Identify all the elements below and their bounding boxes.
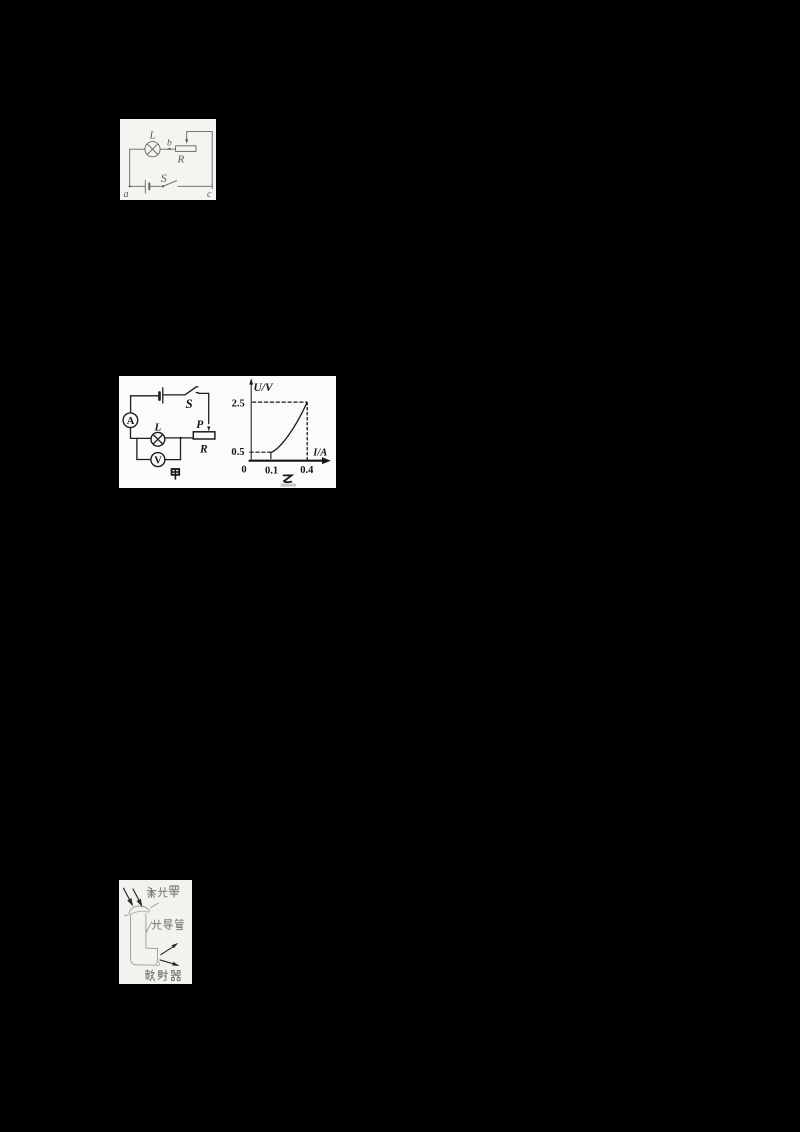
U axis (vertical): [250, 383, 252, 462]
wire: voltmeter to right riser: [165, 459, 181, 461]
wire: right vertical (slider lead): [208, 393, 210, 423]
dot on pipe wall: [146, 931, 148, 933]
outgoing light arrow up-right: [160, 943, 178, 955]
wire: top left segment: [131, 395, 159, 397]
svg-text:L: L: [154, 422, 162, 434]
figure panel 3: daylight pipe diagram (collector dome, light pipe, diffuser): [119, 880, 192, 984]
pipe end edge: [157, 949, 159, 963]
junction dot right of lamp: [179, 437, 181, 439]
svg-text:0.5: 0.5: [231, 447, 244, 458]
wire: lamp left lead: [130, 148, 145, 150]
svg-text:P: P: [196, 419, 204, 431]
svg-text:S: S: [186, 396, 193, 411]
svg-text:A: A: [127, 416, 135, 427]
svg-text:b: b: [167, 139, 172, 149]
svg-text:0.1: 0.1: [265, 466, 278, 477]
lamp L (circle with X): [151, 432, 165, 446]
svg-text:I/A: I/A: [312, 448, 327, 459]
svg-text:S: S: [161, 171, 167, 185]
resistor R (rheostat body): [193, 432, 215, 439]
wire: lamp to left vertical: [131, 437, 151, 439]
wire: to voltmeter: [137, 459, 151, 461]
wire: battery to switch: [163, 394, 185, 396]
svg-text:V: V: [154, 456, 162, 467]
svg-text:L: L: [149, 130, 156, 142]
voltmeter V: [151, 453, 165, 467]
wire: switch to top right corner: [199, 392, 209, 394]
node c tick: [211, 184, 213, 189]
outgoing light arrow down-right: [160, 960, 180, 966]
wire: top from slider to right corner: [187, 131, 213, 133]
resistor R (rheostat body): [176, 146, 196, 152]
figure panel 2: measuring circuit (ammeter, lamp, voltmeter, rheostat, switch) and U-I graph: [119, 376, 336, 488]
voltmeter branch: left drop: [136, 438, 138, 459]
battery cell plates: [160, 388, 163, 403]
I axis (horizontal): [250, 460, 324, 462]
battery cell (plates): [145, 180, 149, 193]
label 光导管 (light pipe): [152, 919, 183, 929]
wire: left vertical bottom part: [130, 428, 132, 439]
node a dot: [129, 185, 131, 187]
dashed vertical I=0.4: [306, 403, 308, 460]
light pipe outer wall: [131, 914, 157, 965]
switch S pivot and blade: [162, 181, 177, 188]
svg-text:0: 0: [241, 465, 246, 476]
label 乙 (yǐ) with underline: [281, 475, 297, 486]
svg-text:0.4: 0.4: [300, 465, 314, 476]
dashed line U=2.5: [253, 401, 307, 403]
slider arrowhead onto rheostat: [207, 426, 210, 431]
wire: left vertical a to lamp level: [129, 149, 131, 186]
tick at I=0.1: [270, 452, 272, 459]
label 采光罩 (collector dome): [147, 886, 179, 898]
dome left flange tick: [125, 914, 129, 917]
light pipe inner wall: [146, 914, 157, 949]
diffuser blob: [156, 962, 159, 966]
wire: battery to switch: [149, 185, 162, 187]
incoming sunlight arrow 1: [123, 888, 133, 907]
wire: left vertical top part: [130, 396, 132, 413]
dashed line U=0.5: [250, 451, 270, 453]
lamp L1 (circle with X): [145, 142, 160, 157]
wire: lamp to rheostat (node b): [160, 148, 176, 150]
voltmeter branch: right riser: [180, 438, 182, 460]
svg-text:2.5: 2.5: [232, 399, 245, 410]
svg-text:a: a: [124, 189, 129, 200]
label 散射器 (diffuser): [146, 970, 181, 981]
figure panel 1: series circuit with lamp L, rheostat R, switch S (nodes a,c): [120, 119, 216, 200]
switch S blade: [185, 387, 198, 395]
collector dome (采光罩): [129, 906, 150, 914]
label 甲 (jiǎ): [172, 469, 180, 480]
wire: switch to c: [178, 185, 212, 187]
graph axes: [249, 378, 330, 464]
incoming sunlight arrow 2: [133, 889, 143, 908]
wire: rheostat to lamp: [165, 437, 194, 439]
pointer line to pipe: [147, 922, 152, 931]
rheostat slider arrow: [185, 132, 188, 144]
svg-text:U/V: U/V: [254, 382, 275, 394]
arrowhead at node b pointing left: [167, 148, 171, 151]
ammeter A: [123, 413, 138, 428]
wire: right vertical down to c: [211, 132, 213, 187]
svg-text:R: R: [177, 154, 185, 166]
svg-text:R: R: [199, 444, 208, 456]
svg-text:c: c: [207, 189, 212, 200]
wire: bottom from a to battery: [130, 185, 146, 187]
pointer line to dome: [151, 903, 159, 908]
U-I curve: [271, 403, 307, 453]
